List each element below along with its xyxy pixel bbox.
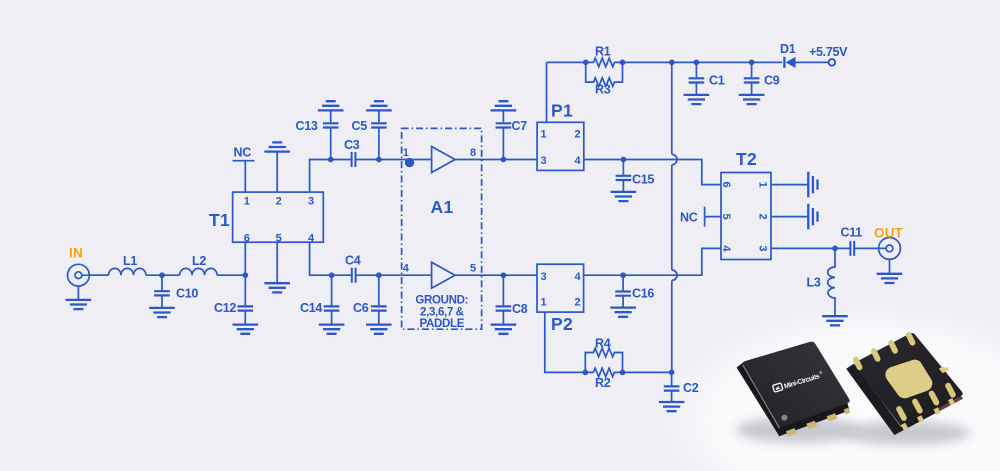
svg-text:4: 4 xyxy=(575,271,582,283)
coupler P1 box xyxy=(537,122,584,170)
ground at L3 xyxy=(822,316,848,325)
svg-text:3: 3 xyxy=(541,155,547,167)
amplifier A1a triangle xyxy=(432,147,455,173)
svg-text:R4: R4 xyxy=(595,337,611,351)
svg-text:1: 1 xyxy=(541,129,547,141)
wire IN to L1 xyxy=(89,274,108,276)
resistor R3 on lower branch xyxy=(586,62,623,86)
svg-text:GROUND:: GROUND: xyxy=(415,294,468,306)
svg-text:C4: C4 xyxy=(345,254,361,268)
ground at C9 xyxy=(739,95,765,104)
node at C5 xyxy=(376,157,382,163)
svg-text:3: 3 xyxy=(308,196,314,208)
ground above T1 pin 2 xyxy=(264,142,290,151)
node at C2 xyxy=(669,370,675,376)
node at C7 xyxy=(501,157,507,163)
wire T1 pin 5 to ground xyxy=(276,242,278,283)
capacitor C16 xyxy=(615,275,631,307)
svg-text:1: 1 xyxy=(244,196,250,208)
supply rail wire xyxy=(547,61,783,63)
chip photo left package shadow xyxy=(736,417,860,443)
transformer T2 box xyxy=(721,173,771,260)
svg-text:5: 5 xyxy=(470,263,476,275)
OUT port connector xyxy=(879,238,901,274)
svg-text:OUT: OUT xyxy=(874,226,904,241)
svg-text:2: 2 xyxy=(575,297,581,309)
wire T2 pin 3 to C11 xyxy=(771,247,850,249)
svg-text:C6: C6 xyxy=(353,301,369,315)
inductor L3 xyxy=(828,248,835,316)
svg-text:4: 4 xyxy=(403,263,410,275)
capacitor C12 xyxy=(238,275,254,324)
resistor R2 xyxy=(585,368,622,377)
chip right package (bottom view) xyxy=(846,333,963,435)
node rail to vertical xyxy=(669,60,675,66)
NC stub at T1 pin 1 xyxy=(233,161,255,192)
svg-text:C8: C8 xyxy=(512,302,528,316)
pin1 notch on right package xyxy=(939,366,950,373)
svg-text:R1: R1 xyxy=(595,45,611,59)
svg-text:8: 8 xyxy=(470,147,476,159)
svg-text:C9: C9 xyxy=(764,74,780,88)
ground at C12 xyxy=(233,325,259,334)
ground above C13 xyxy=(318,101,344,110)
wire P2 pin1 down and right xyxy=(545,312,586,372)
svg-text:C14: C14 xyxy=(300,301,322,315)
amplifier A1b triangle xyxy=(432,262,455,288)
node R1 right xyxy=(620,60,626,66)
ground at IN port xyxy=(66,300,92,309)
ground at OUT port xyxy=(877,274,903,283)
svg-text:6: 6 xyxy=(720,182,732,188)
capacitor C1 xyxy=(689,62,705,95)
svg-text:2: 2 xyxy=(276,196,282,208)
inductor L1 xyxy=(109,268,147,275)
ground at C6 xyxy=(366,325,392,334)
svg-text:C7: C7 xyxy=(512,119,528,133)
svg-text:+5.75V: +5.75V xyxy=(809,45,848,59)
svg-text:D1: D1 xyxy=(780,42,796,56)
wire C4 to A1 pin 4 xyxy=(356,274,432,276)
node R2 left xyxy=(582,370,588,376)
node T1 pin6 / C12 xyxy=(242,272,248,278)
wire C11 to OUT xyxy=(854,247,878,249)
svg-text:6: 6 xyxy=(244,232,250,244)
node at C10 xyxy=(159,272,165,278)
node at C8 xyxy=(501,272,507,278)
wire A1a out xyxy=(455,159,537,161)
transformer T1 box xyxy=(233,192,324,242)
node R2 right xyxy=(620,370,626,376)
inductor L2 xyxy=(180,268,218,275)
resistor R1 xyxy=(586,58,623,67)
svg-text:C1: C1 xyxy=(709,74,725,88)
svg-text:C5: C5 xyxy=(352,119,368,133)
Mini-Circuits logo on left package xyxy=(772,370,824,394)
svg-text:C12: C12 xyxy=(214,301,236,315)
wire T1 pin 2 to ground xyxy=(276,152,278,193)
ground at C10 xyxy=(149,308,175,317)
wire node up to T1 pin 6 xyxy=(244,242,246,275)
svg-text:1: 1 xyxy=(541,297,547,309)
wire T1 pin 4 down to bottom row xyxy=(310,242,352,275)
wire L1 to C10 node xyxy=(146,274,180,276)
hop arc at top row xyxy=(672,154,677,164)
wire P2 pin4 to T2 pin4 with corner xyxy=(584,248,721,275)
capacitor C4 (series) xyxy=(352,268,356,283)
photo backdrop xyxy=(657,302,1000,471)
svg-text:4: 4 xyxy=(720,245,732,252)
resistor R4 on upper branch xyxy=(585,348,622,372)
ground at C2 xyxy=(659,402,685,411)
wire T2 pin 1 to ground xyxy=(771,184,808,186)
svg-text:C13: C13 xyxy=(296,119,318,133)
node at C1 xyxy=(694,60,700,66)
node at C6 xyxy=(376,272,382,278)
svg-text:C16: C16 xyxy=(632,287,654,301)
svg-text:P1: P1 xyxy=(551,101,573,121)
svg-text:L2: L2 xyxy=(192,254,206,268)
svg-text:NC: NC xyxy=(680,211,698,225)
svg-text:A1: A1 xyxy=(431,197,454,217)
svg-text:5: 5 xyxy=(720,214,732,220)
svg-text:IN: IN xyxy=(69,246,83,261)
svg-text:C2: C2 xyxy=(683,381,699,395)
node at C16 xyxy=(620,272,626,278)
svg-text:C15: C15 xyxy=(632,173,654,187)
wire L2 to T1 pin6 node xyxy=(217,274,245,276)
chip photo right package shadow xyxy=(842,421,970,445)
ground below T1 pin 5 xyxy=(264,283,290,292)
wire T1 pin 3 up to top row xyxy=(310,160,352,193)
svg-text:1: 1 xyxy=(403,147,409,159)
capacitor C9 xyxy=(744,62,760,95)
node at L3 xyxy=(832,246,838,252)
svg-text:PADDLE: PADDLE xyxy=(419,318,464,330)
svg-text:R2: R2 xyxy=(595,376,611,390)
svg-text:C3: C3 xyxy=(344,138,360,152)
node at C13 xyxy=(328,157,334,163)
NC stub at T2 pin 5 xyxy=(705,207,721,227)
svg-text:T1: T1 xyxy=(209,210,230,230)
ground right of T2 pin 2 xyxy=(808,204,817,230)
capacitor C5 xyxy=(371,110,387,159)
svg-text:L3: L3 xyxy=(807,276,821,290)
ground at C1 xyxy=(684,95,710,104)
svg-text:C11: C11 xyxy=(841,226,863,240)
ground at C15 xyxy=(611,192,637,201)
capacitor C11 (series) xyxy=(850,241,854,256)
capacitor C3 (series) xyxy=(352,152,356,167)
gold pads on right package bottom edge xyxy=(895,382,957,431)
capacitor C7 xyxy=(496,110,512,159)
capacitor C2 xyxy=(664,372,680,402)
vertical rail with hops xyxy=(671,62,673,372)
svg-text:1: 1 xyxy=(757,182,769,188)
capacitor C13 xyxy=(323,110,339,159)
chip left package (top view) xyxy=(737,342,851,437)
svg-text:4: 4 xyxy=(575,155,582,167)
node at C14 xyxy=(329,272,335,278)
svg-text:C10: C10 xyxy=(176,287,198,301)
capacitor C6 xyxy=(371,275,387,324)
capacitor C15 xyxy=(616,160,632,192)
wire C3 to A1 pin 1 xyxy=(355,159,431,161)
svg-text:3: 3 xyxy=(541,271,547,283)
svg-text:L1: L1 xyxy=(123,254,137,268)
svg-text:2: 2 xyxy=(575,129,581,141)
capacitor C10 xyxy=(154,275,170,308)
ground at C16 xyxy=(610,308,636,317)
ground at C8 xyxy=(491,325,517,334)
capacitor C14 xyxy=(324,275,340,324)
node at C9 xyxy=(749,60,755,66)
ground above C5 xyxy=(366,101,392,110)
wire R2 to C2 node xyxy=(623,371,672,373)
svg-text:2,3,6,7 &: 2,3,6,7 & xyxy=(420,307,464,319)
wire P1 pin4 to T2 pin6 with corner xyxy=(584,160,721,185)
svg-text:2: 2 xyxy=(757,214,769,220)
+5.75V terminal xyxy=(829,59,836,66)
node dot at A1 pin 1 xyxy=(405,158,414,167)
op-amp block A1 dash-dot box xyxy=(402,128,482,329)
svg-text:3: 3 xyxy=(757,245,769,251)
svg-text:P2: P2 xyxy=(551,314,573,334)
wire T2 pin 2 to ground xyxy=(771,216,808,218)
pin1 dot on left package xyxy=(781,415,787,421)
gold pads on right package top edge xyxy=(852,331,917,371)
wire P1 pin1 riser to rail xyxy=(546,62,548,122)
hop arc at bottom row xyxy=(672,270,677,280)
svg-text:R3: R3 xyxy=(595,83,611,97)
IN port connector J1 xyxy=(68,264,109,300)
gold paddle on right package xyxy=(893,368,924,391)
ground right of T2 pin 1 xyxy=(808,172,817,198)
wire A1b out xyxy=(455,274,537,276)
ground at C14 xyxy=(319,325,345,334)
svg-text:NC: NC xyxy=(234,146,252,160)
node at C15 xyxy=(621,157,627,163)
coupler P2 box xyxy=(537,264,584,312)
node R1 left xyxy=(583,60,589,66)
svg-text:T2: T2 xyxy=(736,149,757,169)
capacitor C8 xyxy=(496,275,512,324)
diode D1 xyxy=(784,57,828,68)
ground above C7 xyxy=(491,101,517,110)
